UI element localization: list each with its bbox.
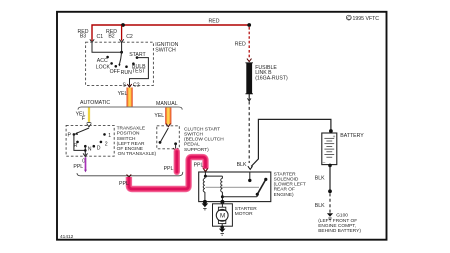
svg-text:TEST: TEST	[132, 69, 146, 75]
wire: battery positive feed	[251, 119, 331, 166]
connector at clutch switch top	[166, 124, 170, 127]
contact OFF	[115, 65, 118, 68]
connector C1	[90, 39, 94, 42]
svg-text:(LEFT FRONT OF: (LEFT FRONT OF	[318, 218, 357, 224]
wire: S terminal to coils	[205, 172, 222, 176]
node: coil2 lower junction	[221, 195, 224, 198]
wire: START contact to S output	[130, 58, 149, 85]
plunger linkage line	[206, 186, 260, 188]
svg-text:RED: RED	[235, 42, 246, 48]
connector at clutch switch output	[173, 148, 177, 151]
wire: thick YEL manual branch	[165, 108, 171, 125]
svg-text:(LOWER LEFT: (LOWER LEFT	[274, 182, 306, 188]
svg-text:TRANSAXLE: TRANSAXLE	[117, 126, 146, 132]
node: S terminal junction	[204, 175, 207, 178]
svg-text:+: +	[333, 135, 336, 140]
contact 1	[103, 133, 106, 136]
wire: thick YEL from ignition S	[127, 88, 133, 107]
connector at fusible link top	[247, 59, 252, 62]
coil: hold-in winding	[221, 178, 223, 192]
node: output junction	[84, 149, 87, 152]
node: battery positive	[329, 129, 333, 133]
contact START	[136, 56, 139, 59]
svg-text:REAR OF: REAR OF	[274, 187, 295, 193]
svg-text:BEHIND BATTERY): BEHIND BATTERY)	[318, 228, 361, 234]
connector S / C2 at ignition output	[127, 84, 131, 87]
svg-text:1: 1	[108, 133, 111, 139]
starter solenoid box	[199, 172, 271, 202]
svg-text:STARTER: STARTER	[235, 206, 257, 212]
ignition switch dashed box	[86, 42, 154, 85]
node: splice on battery ground lead	[328, 189, 332, 193]
node: solenoid to motor junction	[220, 200, 224, 204]
svg-text:PPL: PPL	[194, 162, 204, 168]
wire: split line automatic/manual	[77, 173, 80, 176]
contact BULB TEST	[132, 62, 135, 65]
transaxle position switch dashed box	[66, 125, 114, 156]
contact 2	[100, 141, 103, 144]
contact R	[76, 141, 79, 144]
wire: solenoid to starter motor	[221, 202, 223, 207]
contact P	[73, 133, 76, 136]
node: coil1 to case ground	[203, 200, 207, 204]
battery	[322, 133, 337, 165]
svg-text:(16GA-RUST): (16GA-RUST)	[255, 75, 288, 81]
contact N	[84, 145, 87, 148]
fusible link B	[245, 63, 253, 94]
svg-text:B2: B2	[108, 34, 114, 40]
wire: BLK dashed from fusible link to solenoid	[248, 102, 250, 164]
svg-text:–: –	[323, 160, 326, 165]
ground (solenoid case)	[202, 203, 209, 207]
svg-text:M: M	[220, 213, 225, 220]
svg-text:RUN: RUN	[121, 70, 132, 76]
connector C2	[119, 39, 123, 42]
svg-text:P: P	[68, 133, 72, 139]
svg-text:SWITCH: SWITCH	[184, 132, 203, 138]
svg-text:SWITCH: SWITCH	[155, 47, 176, 53]
svg-text:ON TRANSAXLE): ON TRANSAXLE)	[118, 151, 157, 157]
svg-text:1995 VFTC: 1995 VFTC	[353, 16, 380, 22]
svg-text:CLUTCH START: CLUTCH START	[184, 126, 220, 132]
svg-text:OFF: OFF	[110, 69, 120, 75]
svg-text:BLK: BLK	[315, 176, 325, 182]
wire: thick PPL from clutch switch	[174, 152, 180, 172]
svg-text:PPL: PPL	[119, 181, 129, 187]
svg-text:ENGINE COMPT,: ENGINE COMPT,	[318, 223, 356, 229]
contact RUN	[125, 65, 128, 68]
ground (starter motor)	[219, 229, 226, 233]
wire: BLK dashed to G100	[329, 193, 331, 212]
wire: thin YEL automatic branch	[88, 108, 90, 122]
svg-text:SOLENOID: SOLENOID	[274, 177, 299, 183]
wire: N stub	[84, 146, 86, 150]
starter motor M	[218, 207, 225, 210]
svg-text:MANUAL: MANUAL	[156, 101, 178, 107]
node: junction of jumper and thick PPL	[127, 174, 132, 177]
svg-text:PPL: PPL	[164, 166, 174, 172]
node: corner junction above fusible link	[247, 23, 251, 27]
svg-text:PEDAL: PEDAL	[184, 142, 200, 148]
svg-text:F: F	[82, 116, 85, 122]
svg-text:POSITION: POSITION	[117, 131, 140, 137]
contact D	[93, 145, 96, 148]
clutch start switch dashed box	[157, 126, 180, 149]
svg-text:41412: 41412	[60, 234, 74, 240]
connector F at transaxle switch	[87, 121, 92, 124]
transaxle switch arm	[77, 128, 89, 133]
solenoid contact blade	[257, 179, 266, 194]
wire: motor to ground	[221, 224, 223, 227]
svg-text:C2: C2	[133, 83, 140, 89]
node: battery negative terminal	[328, 164, 332, 168]
svg-text:BATTERY: BATTERY	[340, 133, 364, 139]
contact ACC	[106, 56, 109, 59]
wire: battery negative lead	[329, 165, 331, 191]
clutch switch output contact	[174, 142, 177, 145]
svg-text:C2: C2	[126, 34, 133, 40]
coil: pull-in winding	[203, 178, 205, 192]
svg-text:G100: G100	[336, 212, 348, 218]
wire: thin PPL from transaxle	[85, 157, 87, 170]
wire: ignition feed C1 to pivot	[92, 42, 122, 52]
connector S at solenoid	[203, 168, 207, 171]
svg-text:PPL: PPL	[73, 164, 83, 170]
svg-text:(LEFT REAR: (LEFT REAR	[117, 141, 145, 147]
wire: P to output	[74, 134, 85, 155]
svg-text:2: 2	[105, 142, 108, 148]
starter motor box	[213, 204, 233, 226]
svg-text:BLK: BLK	[315, 203, 325, 209]
wire: main red feed (top)	[92, 25, 249, 41]
svg-text:OF ENGINE: OF ENGINE	[117, 146, 143, 152]
svg-text:BLK: BLK	[237, 162, 247, 168]
svg-text:C: C	[347, 16, 351, 22]
svg-text:D: D	[97, 146, 101, 152]
svg-text:AUTOMATIC: AUTOMATIC	[80, 100, 110, 106]
svg-text:(BELOW CLUTCH: (BELOW CLUTCH	[184, 137, 224, 143]
wire: jumper line from PPL to clutch output	[80, 172, 182, 176]
svg-text:YEL: YEL	[118, 91, 128, 97]
svg-text:YEL: YEL	[154, 113, 164, 119]
svg-text:RED: RED	[209, 19, 220, 25]
node: ignition switch pivot	[120, 51, 123, 54]
svg-text:SWITCH: SWITCH	[117, 136, 136, 142]
border frame	[57, 12, 387, 240]
wire: red dashed drop to fusible link	[248, 27, 250, 59]
svg-text:STARTER: STARTER	[274, 171, 296, 177]
wire: BLK battery terminal inside solenoid	[249, 172, 251, 180]
svg-text:LOCK: LOCK	[96, 65, 111, 71]
svg-text:SUPPORT): SUPPORT)	[184, 147, 209, 153]
svg-text:C1: C1	[97, 34, 104, 40]
copyright label	[346, 15, 379, 22]
svg-text:ACC: ACC	[97, 58, 108, 64]
svg-text:MOTOR: MOTOR	[235, 211, 253, 217]
svg-text:B3: B3	[80, 34, 86, 40]
ignition switch arm	[119, 52, 121, 65]
svg-text:N: N	[88, 147, 92, 153]
svg-text:ENGINE): ENGINE)	[274, 192, 294, 198]
connector BLK at solenoid top	[248, 166, 253, 169]
ground G100	[327, 213, 333, 217]
node: junction on red feed above C2	[121, 23, 125, 27]
clutch switch arm	[160, 128, 168, 142]
wire: red drop to C2	[121, 25, 123, 40]
wire: thick PPL to starter solenoid	[129, 157, 206, 189]
svg-text:S: S	[123, 83, 127, 89]
connector 0 at transaxle output	[83, 153, 87, 156]
contact LOCK	[110, 62, 113, 65]
wire: contact feed	[222, 194, 257, 196]
